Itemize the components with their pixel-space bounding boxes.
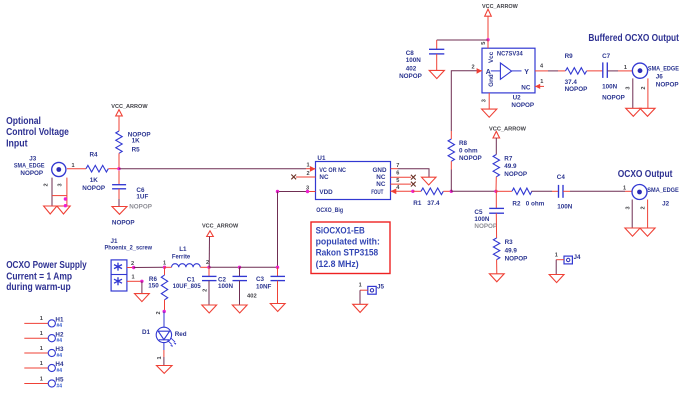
svg-text:2: 2 bbox=[206, 260, 209, 266]
svg-text:Input: Input bbox=[6, 138, 28, 149]
svg-text:6: 6 bbox=[396, 171, 399, 177]
svg-text:49.9: 49.9 bbox=[504, 163, 517, 170]
svg-text:J3: J3 bbox=[29, 155, 37, 162]
svg-text:1: 1 bbox=[40, 376, 43, 382]
connector J2 SMA_EDGE bbox=[623, 185, 679, 229]
ground (C1) bbox=[202, 305, 217, 313]
svg-text:J6: J6 bbox=[656, 73, 664, 80]
svg-text:#4: #4 bbox=[57, 338, 63, 344]
svg-text:1: 1 bbox=[72, 163, 75, 169]
svg-text:NOPOP: NOPOP bbox=[511, 102, 534, 109]
capacitor C5 bbox=[474, 191, 504, 238]
wire: J3 pin1 to R4 bbox=[67, 168, 86, 170]
svg-text:2: 2 bbox=[156, 311, 162, 314]
svg-text:VC OR NC: VC OR NC bbox=[319, 167, 346, 174]
svg-text:NC: NC bbox=[319, 174, 329, 181]
node: J3 shield junctions bbox=[64, 197, 67, 200]
ground (U2) bbox=[482, 109, 497, 117]
svg-text:OCXO_Big: OCXO_Big bbox=[316, 207, 343, 214]
power VCC_ARROW (over C1) bbox=[202, 224, 239, 268]
oscillator U1 OCXO_Big bbox=[316, 155, 391, 214]
svg-text:SMA_EDGE: SMA_EDGE bbox=[14, 162, 45, 169]
svg-text:1: 1 bbox=[359, 283, 362, 289]
resistor R9 bbox=[565, 53, 603, 93]
ground (U1 pin 7) bbox=[422, 177, 437, 185]
resistor R6 bbox=[148, 267, 168, 311]
svg-text:3: 3 bbox=[58, 183, 64, 186]
svg-text:Y: Y bbox=[524, 69, 529, 76]
connector H4 bbox=[24, 361, 64, 374]
pin 3 stub of U2 (Gnd) bbox=[488, 93, 490, 109]
node: C3 junction bbox=[276, 266, 279, 269]
capacitor C7 bbox=[602, 53, 633, 102]
svg-text:4: 4 bbox=[396, 185, 400, 191]
power VCC_ARROW (U2) bbox=[482, 4, 518, 40]
svg-text:1K: 1K bbox=[90, 177, 99, 184]
note box: SiOCXO1-EB populated with Rakon STP3158 bbox=[311, 222, 390, 274]
svg-text:SMA_EDGE: SMA_EDGE bbox=[648, 65, 679, 72]
connector J6 SMA_EDGE bbox=[624, 63, 679, 108]
svg-text:C5: C5 bbox=[474, 209, 483, 216]
capacitor C2 bbox=[218, 267, 247, 305]
svg-text:#4: #4 bbox=[57, 383, 63, 389]
node: VDD corner bbox=[276, 190, 279, 193]
svg-text:Red: Red bbox=[175, 331, 187, 338]
ground (C8) bbox=[429, 70, 444, 78]
ground (C3) bbox=[270, 304, 285, 312]
node: FOUT stub junction bbox=[411, 190, 414, 193]
svg-text:1: 1 bbox=[163, 260, 166, 266]
inductor L1 Ferrite bbox=[163, 246, 209, 267]
svg-text:1: 1 bbox=[40, 331, 43, 337]
svg-text:NOPOP: NOPOP bbox=[656, 82, 679, 89]
svg-text:Ferrite: Ferrite bbox=[172, 253, 191, 260]
wire: J1 pin 2 stub bbox=[127, 267, 134, 269]
ground (D1) bbox=[157, 366, 173, 374]
svg-text:Control Voltage: Control Voltage bbox=[6, 127, 69, 138]
ground (J5) bbox=[353, 304, 368, 312]
pin 3 stub of U1 (VDD) bbox=[308, 191, 316, 193]
ground (C2) bbox=[232, 305, 247, 313]
pin 1 stub of U2 (NC) with arrowhead bbox=[535, 85, 544, 87]
svg-text:150: 150 bbox=[148, 283, 159, 290]
wire: power rail C1 to C2 bbox=[209, 266, 240, 268]
no-connect X on U1 pin 6 bbox=[411, 175, 416, 180]
svg-text:R8: R8 bbox=[459, 140, 468, 147]
svg-text:J2: J2 bbox=[662, 200, 670, 207]
resistor R3 bbox=[493, 238, 527, 274]
svg-text:NOPOP: NOPOP bbox=[112, 220, 135, 227]
svg-text:R9: R9 bbox=[565, 53, 574, 60]
node: J1 pin 2 bbox=[132, 266, 135, 269]
svg-text:402: 402 bbox=[406, 65, 417, 72]
wire: control voltage net to U1 pin 1 bbox=[119, 168, 306, 170]
svg-text:NOPOP: NOPOP bbox=[129, 203, 152, 210]
connector J4 bbox=[555, 253, 581, 275]
node: R4/R5/C6 junction bbox=[117, 167, 120, 170]
svg-text:2: 2 bbox=[472, 64, 475, 70]
svg-text:(12.8 MHz): (12.8 MHz) bbox=[316, 259, 359, 269]
svg-text:NC7SV34: NC7SV34 bbox=[497, 51, 523, 58]
ground (J2 shield, two triangles) bbox=[625, 228, 640, 236]
node: C1/VCC junction bbox=[207, 266, 210, 269]
node: J1 pin 1 bbox=[140, 280, 143, 283]
svg-text:Phoenix_2_screw: Phoenix_2_screw bbox=[105, 245, 153, 252]
svg-text:#4: #4 bbox=[57, 368, 63, 374]
svg-text:1: 1 bbox=[623, 185, 626, 191]
connector H1 bbox=[24, 316, 64, 329]
svg-text:2: 2 bbox=[307, 171, 310, 177]
svg-text:#4: #4 bbox=[57, 353, 63, 359]
svg-text:0 ohm: 0 ohm bbox=[526, 201, 545, 208]
svg-text:populated with:: populated with: bbox=[316, 236, 380, 246]
svg-text:FOUT: FOUT bbox=[371, 189, 383, 196]
svg-text:100N: 100N bbox=[557, 204, 573, 211]
svg-text:NC: NC bbox=[521, 84, 531, 91]
connector J3 SMA_EDGE bbox=[14, 155, 67, 206]
svg-text:100N: 100N bbox=[474, 216, 490, 223]
svg-text:3: 3 bbox=[626, 86, 632, 89]
pin 2 stub of U1 bbox=[296, 176, 316, 178]
resistor R5 bbox=[116, 131, 151, 168]
ground (J4) bbox=[549, 275, 564, 283]
ground (R3) bbox=[489, 274, 504, 282]
svg-text:10NF: 10NF bbox=[256, 283, 272, 290]
svg-text:NOPOP: NOPOP bbox=[504, 171, 527, 178]
svg-text:1: 1 bbox=[40, 361, 43, 367]
svg-text:1: 1 bbox=[40, 346, 43, 352]
wire: power rail C2 to C3 bbox=[240, 266, 278, 268]
svg-text:Vcc: Vcc bbox=[488, 51, 495, 63]
svg-text:OCXO Power Supply: OCXO Power Supply bbox=[6, 260, 87, 271]
pin 5 stub of U2 (Vcc) bbox=[487, 40, 489, 48]
svg-text:Rakon STP3158: Rakon STP3158 bbox=[316, 248, 379, 258]
node: R6 top junction bbox=[163, 266, 166, 269]
capacitor C1 bbox=[173, 267, 217, 305]
svg-text:1: 1 bbox=[540, 79, 543, 85]
capacitor C4 bbox=[557, 174, 632, 211]
svg-text:VDD: VDD bbox=[319, 189, 333, 196]
svg-text:2: 2 bbox=[641, 86, 647, 89]
svg-text:J5: J5 bbox=[377, 283, 385, 290]
svg-text:GND: GND bbox=[373, 167, 387, 174]
no-connect X on U1 pin 5 bbox=[411, 182, 416, 187]
resistor R4 bbox=[82, 152, 108, 193]
node: VDD pin junction bbox=[306, 190, 309, 193]
connector H2 bbox=[24, 331, 64, 344]
svg-text:1UF: 1UF bbox=[136, 193, 148, 200]
svg-text:D1: D1 bbox=[142, 329, 151, 336]
svg-text:37.4: 37.4 bbox=[565, 79, 578, 86]
svg-text:VCC_ARROW: VCC_ARROW bbox=[111, 104, 148, 110]
svg-text:5: 5 bbox=[481, 42, 487, 45]
svg-text:VCC_ARROW: VCC_ARROW bbox=[489, 126, 527, 132]
svg-text:C4: C4 bbox=[557, 174, 566, 181]
wire: FOUT net R8 junction to R7 junction bbox=[451, 190, 496, 192]
capacitor C3 bbox=[247, 267, 285, 303]
ground (J1 pin 1) bbox=[135, 294, 150, 302]
svg-text:402: 402 bbox=[247, 294, 257, 300]
svg-text:C7: C7 bbox=[602, 53, 611, 60]
svg-text:C8: C8 bbox=[406, 50, 415, 57]
svg-text:SiOCXO1-EB: SiOCXO1-EB bbox=[316, 225, 365, 235]
svg-text:49.9: 49.9 bbox=[505, 247, 518, 254]
pin 7 stub of U1 (GND) bbox=[391, 168, 398, 170]
resistor R1 bbox=[413, 188, 451, 207]
svg-text:C3: C3 bbox=[256, 276, 265, 283]
svg-text:NOPOP: NOPOP bbox=[505, 256, 528, 263]
wire: J1 pin1 down to ground bbox=[141, 281, 143, 293]
pin 5 stub of U1 bbox=[391, 183, 412, 185]
svg-text:SMA_EDGE: SMA_EDGE bbox=[647, 187, 679, 194]
LED D1 Red bbox=[142, 312, 187, 366]
wire: J1 pin 1 stub bbox=[127, 280, 142, 282]
svg-text:OCXO Output: OCXO Output bbox=[618, 169, 673, 180]
svg-text:NOPOP: NOPOP bbox=[474, 223, 497, 230]
node: R7/C5 junction bbox=[494, 190, 497, 193]
svg-text:100N: 100N bbox=[218, 283, 234, 290]
svg-text:L1: L1 bbox=[179, 246, 187, 253]
capacitor C8 bbox=[399, 40, 444, 80]
connector J5 bbox=[359, 283, 385, 305]
node: R6/D1 junction bbox=[163, 310, 166, 313]
svg-text:NOPOP: NOPOP bbox=[20, 170, 43, 177]
svg-text:1: 1 bbox=[307, 163, 310, 169]
svg-text:1K: 1K bbox=[132, 138, 141, 145]
annotation: OCXO Power Supply bbox=[6, 260, 87, 293]
wire: Y to R9 bbox=[548, 70, 558, 72]
svg-text:3: 3 bbox=[482, 99, 488, 102]
pin 6 stub of U1 bbox=[391, 176, 412, 178]
svg-text:R7: R7 bbox=[504, 156, 513, 163]
svg-text:2: 2 bbox=[203, 289, 209, 292]
resistor R2 bbox=[496, 188, 559, 208]
svg-text:1: 1 bbox=[157, 356, 163, 359]
node: R1/R8 junction bbox=[450, 190, 453, 193]
svg-text:100N: 100N bbox=[602, 83, 618, 90]
svg-text:NOPOP: NOPOP bbox=[565, 86, 588, 93]
svg-text:R4: R4 bbox=[90, 152, 99, 159]
resistor R8 bbox=[448, 131, 482, 191]
power VCC_ARROW (R7) bbox=[489, 126, 527, 154]
svg-text:Optional: Optional bbox=[6, 116, 41, 127]
svg-text:R1: R1 bbox=[413, 200, 422, 207]
svg-text:1: 1 bbox=[624, 65, 627, 71]
no-connect X on U1 pin 2 bbox=[291, 175, 296, 180]
svg-text:5: 5 bbox=[396, 178, 399, 184]
wire: R4 to junction bbox=[108, 168, 119, 170]
svg-text:NOPOP: NOPOP bbox=[602, 95, 625, 102]
wire: VDD net bbox=[278, 191, 308, 193]
wire: junction to C8 bbox=[437, 39, 488, 41]
node: C2 junction bbox=[238, 266, 241, 269]
svg-text:1: 1 bbox=[555, 253, 558, 259]
svg-text:2: 2 bbox=[44, 183, 50, 186]
svg-text:NOPOP: NOPOP bbox=[399, 73, 422, 80]
svg-text:2: 2 bbox=[641, 206, 647, 209]
svg-text:#4: #4 bbox=[57, 323, 63, 329]
svg-text:NC: NC bbox=[376, 181, 386, 188]
wire: U2 A input net (down to R8) bbox=[451, 71, 477, 131]
resistor R7 bbox=[493, 155, 527, 192]
ground (J3 shield, two triangles) bbox=[44, 206, 57, 214]
annotation: Optional Control Voltage Input bbox=[6, 116, 69, 149]
svg-text:R2: R2 bbox=[512, 201, 521, 208]
svg-text:10UF_805: 10UF_805 bbox=[173, 283, 202, 290]
svg-text:1: 1 bbox=[132, 274, 135, 280]
power VCC_ARROW (R5) bbox=[111, 104, 148, 131]
capacitor C6 bbox=[112, 171, 152, 211]
ground (J6 shield, two triangles) bbox=[626, 108, 641, 116]
svg-text:R3: R3 bbox=[505, 239, 514, 246]
svg-text:4: 4 bbox=[540, 64, 544, 70]
node: C8/VCC/U2 junction bbox=[486, 38, 489, 41]
svg-text:1: 1 bbox=[40, 316, 43, 322]
connector J1 Phoenix_2_screw bbox=[105, 238, 153, 291]
pin 4 stub of U1 (FOUT) with output arrowhead bbox=[391, 190, 413, 192]
svg-text:NOPOP: NOPOP bbox=[82, 185, 105, 192]
svg-text:Buffered OCXO Output: Buffered OCXO Output bbox=[588, 33, 679, 44]
svg-text:NOPOP: NOPOP bbox=[459, 155, 482, 162]
pin 2 stub of U2 (A) with arrowhead bbox=[477, 70, 482, 72]
wire: power rail J1 to L1 bbox=[134, 266, 165, 268]
svg-text:VCC_ARROW: VCC_ARROW bbox=[202, 224, 239, 230]
pin 4 stub of U2 (Y) bbox=[535, 70, 548, 72]
svg-text:100N: 100N bbox=[406, 57, 422, 64]
svg-text:U2: U2 bbox=[513, 95, 522, 102]
connector H3 bbox=[24, 346, 64, 359]
svg-text:during warm-up: during warm-up bbox=[6, 282, 71, 293]
svg-text:J4: J4 bbox=[574, 254, 582, 261]
buffer U2 NC7SV34 bbox=[482, 48, 535, 109]
wire: U1 GND to ground bbox=[398, 169, 429, 177]
pin 1 stub of U1 with input arrowhead bbox=[306, 168, 316, 170]
svg-text:VCC_ARROW: VCC_ARROW bbox=[482, 4, 518, 10]
svg-text:3: 3 bbox=[626, 206, 632, 209]
ground (C6) bbox=[112, 207, 127, 215]
svg-text:Gnd: Gnd bbox=[488, 74, 495, 87]
svg-text:0 ohm: 0 ohm bbox=[459, 148, 478, 155]
svg-text:Current = 1 Amp: Current = 1 Amp bbox=[6, 271, 72, 282]
svg-text:R5: R5 bbox=[132, 147, 141, 154]
connector H5 bbox=[24, 376, 64, 389]
wire: VDD riser to power rail bbox=[277, 192, 279, 268]
svg-text:37.4: 37.4 bbox=[427, 200, 440, 207]
